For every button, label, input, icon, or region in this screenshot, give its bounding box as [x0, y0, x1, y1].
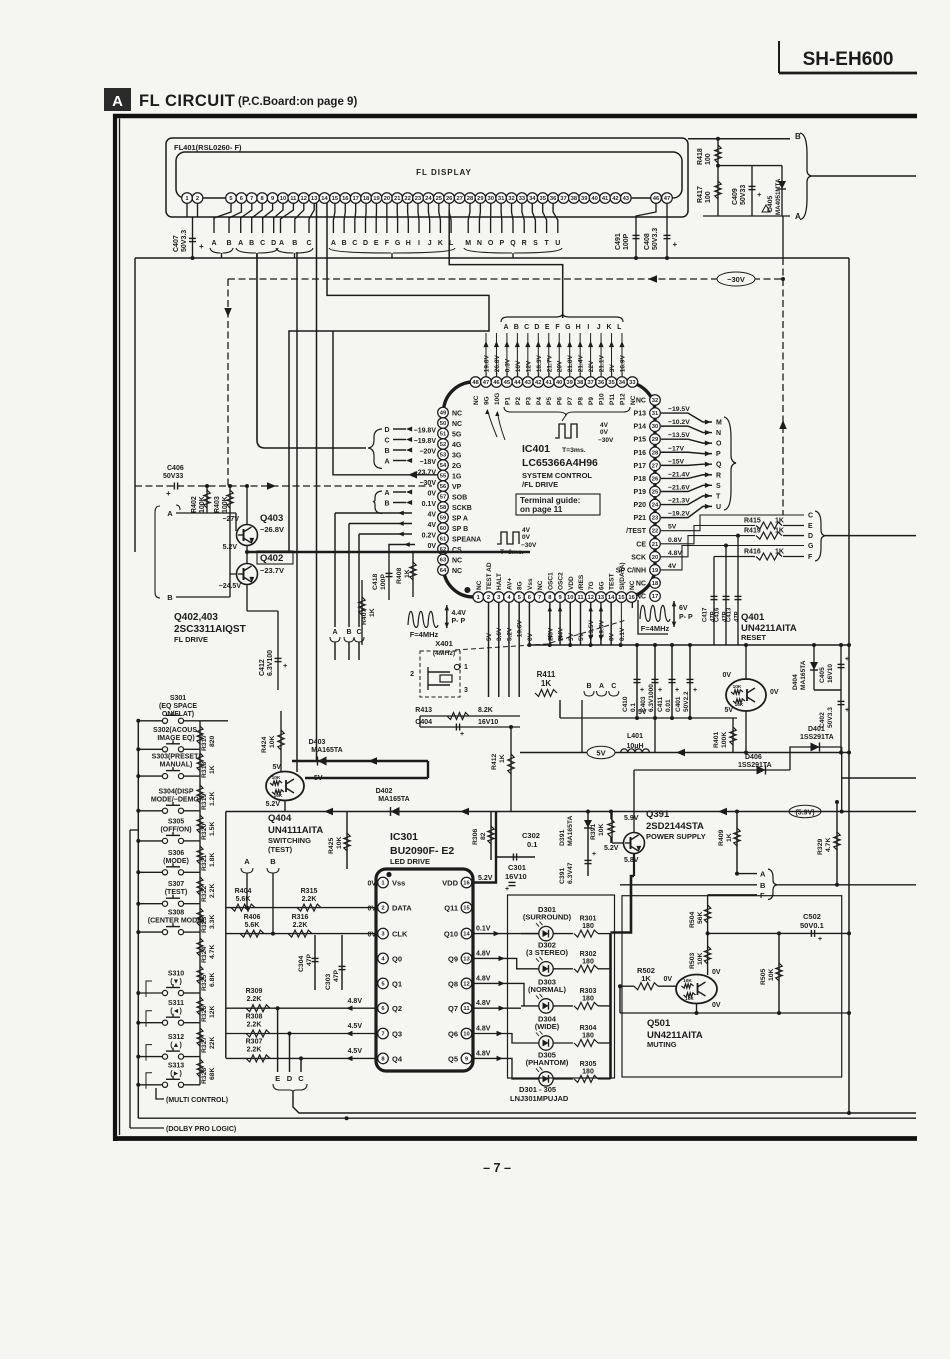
svg-text:47P: 47P — [333, 969, 340, 982]
svg-text:0V: 0V — [712, 1002, 721, 1009]
svg-text:D: D — [384, 427, 389, 434]
svg-text:R412: R412 — [491, 754, 498, 770]
svg-text:C407: C407 — [173, 235, 180, 252]
svg-text:100: 100 — [705, 191, 712, 203]
svg-text:29: 29 — [652, 437, 659, 443]
svg-text:P20: P20 — [634, 502, 647, 509]
svg-text:B: B — [586, 683, 591, 690]
svg-text:R418: R418 — [697, 148, 704, 165]
svg-text:R306: R306 — [472, 829, 479, 845]
svg-text:2.2K: 2.2K — [293, 922, 308, 929]
svg-text:Q6: Q6 — [448, 1030, 458, 1039]
svg-text:/RES: /RES — [578, 574, 585, 590]
svg-text:S310: S310 — [168, 971, 184, 978]
svg-text:7: 7 — [538, 595, 541, 601]
svg-text:R326: R326 — [201, 1006, 208, 1022]
svg-text:B: B — [270, 857, 276, 866]
svg-text:SYSTEM CONTROL: SYSTEM CONTROL — [522, 471, 592, 480]
svg-text:(DOLBY PRO LOGIC): (DOLBY PRO LOGIC) — [166, 1126, 236, 1133]
svg-text:NC: NC — [452, 421, 462, 428]
svg-text:(5.9V): (5.9V) — [795, 810, 814, 817]
svg-text:S: S — [716, 483, 721, 490]
svg-text:0.1V: 0.1V — [422, 501, 437, 508]
svg-text:C502: C502 — [803, 912, 821, 921]
svg-text:R424: R424 — [261, 737, 268, 753]
svg-text:0.2V: 0.2V — [422, 533, 437, 540]
svg-text:61: 61 — [440, 537, 447, 543]
svg-text:10K: 10K — [697, 952, 704, 965]
svg-text:24: 24 — [652, 503, 659, 509]
svg-text:4.4V: 4.4V — [452, 610, 467, 617]
svg-text:P4: P4 — [536, 397, 543, 405]
svg-text:OSC2: OSC2 — [558, 572, 565, 590]
svg-text:S305: S305 — [168, 818, 184, 825]
svg-text:0V: 0V — [522, 534, 531, 541]
svg-text:F: F — [385, 240, 390, 247]
svg-text:2: 2 — [410, 671, 414, 678]
svg-text:16: 16 — [342, 196, 349, 202]
svg-text:P: P — [499, 240, 504, 247]
svg-text:P6: P6 — [557, 397, 564, 405]
svg-text:17: 17 — [652, 594, 658, 600]
svg-text:1K: 1K — [541, 679, 551, 688]
svg-text:100K: 100K — [222, 496, 229, 513]
svg-text:37: 37 — [560, 196, 566, 202]
svg-text:C413: C413 — [727, 607, 733, 622]
svg-text:−23.7V: −23.7V — [260, 566, 284, 575]
svg-text:(MODE): (MODE) — [163, 858, 189, 865]
svg-text:180: 180 — [582, 923, 594, 930]
svg-text:29: 29 — [477, 196, 484, 202]
svg-text:C408: C408 — [644, 233, 651, 250]
svg-text:8.2K: 8.2K — [478, 707, 493, 714]
svg-text:+: + — [675, 687, 679, 694]
svg-text:C: C — [524, 324, 529, 331]
svg-text:C: C — [384, 438, 389, 445]
svg-text:56K: 56K — [697, 911, 704, 924]
svg-text:S306: S306 — [168, 850, 184, 857]
svg-text:NC: NC — [537, 580, 544, 590]
svg-text:17: 17 — [352, 196, 358, 202]
svg-text:180: 180 — [582, 1033, 594, 1040]
svg-text:O: O — [488, 240, 494, 247]
svg-text:22: 22 — [652, 529, 658, 535]
svg-text:F=4MHz: F=4MHz — [410, 630, 439, 639]
svg-text:10K: 10K — [735, 702, 744, 708]
svg-text:RESET: RESET — [741, 633, 766, 642]
svg-text:5.2V: 5.2V — [604, 845, 619, 852]
svg-text:22K: 22K — [209, 1036, 216, 1049]
svg-text:−12V: −12V — [525, 360, 532, 376]
svg-text:R402: R402 — [191, 496, 198, 513]
svg-text:19: 19 — [373, 196, 380, 202]
svg-text:5.9V: 5.9V — [624, 815, 639, 822]
svg-text:2.3V: 2.3V — [547, 627, 554, 641]
svg-text:10: 10 — [280, 196, 286, 202]
svg-text:1K: 1K — [726, 833, 733, 842]
svg-text:−16.9V: −16.9V — [619, 355, 626, 376]
svg-text:2: 2 — [487, 595, 490, 601]
svg-text:2.4V: 2.4V — [558, 627, 565, 641]
svg-text:6V: 6V — [679, 605, 688, 612]
svg-text:−15V: −15V — [668, 458, 685, 465]
svg-text:0V: 0V — [427, 491, 436, 498]
svg-text:C301: C301 — [508, 863, 526, 872]
svg-text:P14: P14 — [634, 424, 647, 431]
svg-text:MA165TA: MA165TA — [311, 747, 342, 754]
svg-text:(TEST): (TEST) — [268, 845, 293, 854]
svg-text:A: A — [279, 240, 284, 247]
svg-text:−19.6V: −19.6V — [517, 620, 524, 641]
svg-text:FL DISPLAY: FL DISPLAY — [416, 168, 472, 177]
svg-text:Q404: Q404 — [268, 813, 292, 824]
svg-text:10K: 10K — [683, 978, 692, 984]
svg-text:10K: 10K — [768, 968, 775, 981]
svg-text:IMAGE EQ): IMAGE EQ) — [157, 735, 194, 742]
svg-text:36: 36 — [550, 196, 557, 202]
svg-text:6.3V100: 6.3V100 — [267, 650, 274, 676]
svg-text:−3V: −3V — [609, 364, 616, 376]
svg-text:S301: S301 — [170, 695, 186, 702]
svg-text:R321: R321 — [201, 855, 208, 871]
svg-text:42: 42 — [612, 196, 618, 202]
svg-text:T=3ms.: T=3ms. — [562, 447, 586, 454]
svg-text:MA4051MTA: MA4051MTA — [775, 178, 782, 215]
svg-text:43: 43 — [525, 380, 532, 386]
svg-text:13: 13 — [311, 196, 318, 202]
svg-text:E: E — [545, 324, 550, 331]
svg-text:SWITCHING: SWITCHING — [268, 836, 311, 845]
svg-text:−21.8V: −21.8V — [567, 355, 574, 376]
svg-text:TEST AD: TEST AD — [486, 562, 493, 590]
svg-text:NC: NC — [452, 568, 462, 575]
svg-text:13: 13 — [463, 956, 470, 962]
svg-text:+: + — [460, 731, 464, 738]
svg-text:P18: P18 — [634, 476, 647, 483]
svg-text:−30V: −30V — [598, 437, 614, 444]
svg-text:0.1V: 0.1V — [476, 926, 491, 933]
svg-text:5.2V: 5.2V — [506, 627, 513, 641]
svg-text:(SURROUND): (SURROUND) — [523, 913, 572, 922]
svg-text:4.8V: 4.8V — [476, 1000, 491, 1007]
svg-text:2G: 2G — [452, 463, 462, 470]
svg-text:30: 30 — [488, 196, 494, 202]
svg-text:20: 20 — [384, 196, 390, 202]
svg-text:R409: R409 — [718, 830, 725, 846]
svg-text:BU2090F- E2: BU2090F- E2 — [390, 845, 454, 857]
svg-text:+: + — [505, 886, 509, 893]
svg-text:−20V: −20V — [419, 449, 436, 456]
svg-text:41: 41 — [545, 380, 552, 386]
svg-text:R403: R403 — [214, 496, 221, 513]
svg-text:NC: NC — [473, 395, 480, 405]
svg-text:−22V: −22V — [588, 360, 595, 376]
svg-text:SP A: SP A — [452, 516, 468, 523]
svg-text:−30V: −30V — [419, 480, 436, 487]
svg-text:C417: C417 — [703, 607, 709, 622]
svg-text:14: 14 — [608, 595, 615, 601]
svg-text:36: 36 — [598, 380, 605, 386]
svg-text:0V: 0V — [427, 543, 436, 550]
svg-text:56: 56 — [440, 484, 447, 490]
svg-text:U: U — [555, 240, 560, 247]
svg-text:10K: 10K — [733, 684, 742, 690]
svg-text:B: B — [226, 240, 231, 247]
svg-text:50V3.3: 50V3.3 — [827, 707, 834, 728]
svg-text:R329: R329 — [817, 839, 824, 855]
svg-text:38: 38 — [571, 196, 578, 202]
svg-text:I: I — [418, 240, 420, 247]
svg-text:M: M — [465, 240, 471, 247]
svg-text:1SS291TA: 1SS291TA — [800, 734, 834, 741]
svg-text:4.8V: 4.8V — [668, 550, 682, 557]
svg-text:U: U — [716, 504, 721, 511]
svg-text:NC: NC — [636, 398, 646, 405]
svg-text:R315: R315 — [301, 888, 318, 895]
svg-text:(OFF/ON): (OFF/ON) — [160, 826, 191, 833]
svg-text:47P: 47P — [735, 611, 741, 622]
svg-text:22: 22 — [404, 196, 410, 202]
svg-text:4.8V: 4.8V — [476, 950, 491, 957]
svg-text:45: 45 — [504, 380, 511, 386]
svg-text:R323: R323 — [201, 917, 208, 933]
svg-text:C410: C410 — [622, 696, 629, 712]
svg-text:T: T — [544, 240, 549, 247]
svg-text:D391: D391 — [559, 830, 566, 846]
svg-text:0V: 0V — [367, 881, 376, 888]
svg-text:Q403: Q403 — [260, 513, 283, 524]
svg-text:28: 28 — [652, 450, 659, 456]
svg-text:16: 16 — [628, 595, 635, 601]
svg-text:(PHANTOM): (PHANTOM) — [526, 1058, 569, 1067]
svg-text:R: R — [716, 472, 721, 479]
svg-text:E: E — [808, 523, 813, 530]
svg-text:1K: 1K — [499, 754, 506, 763]
svg-text:P16: P16 — [634, 450, 647, 457]
svg-text:34: 34 — [619, 380, 626, 386]
svg-text:27: 27 — [456, 196, 462, 202]
svg-text:P: P — [716, 451, 721, 458]
svg-text:D: D — [271, 240, 276, 247]
svg-text:20: 20 — [652, 555, 658, 561]
svg-text:9G: 9G — [483, 396, 490, 405]
svg-text:82: 82 — [480, 832, 487, 840]
svg-text:+: + — [818, 936, 822, 943]
svg-text:B: B — [514, 324, 519, 331]
svg-text:−10.2V: −10.2V — [668, 419, 690, 426]
svg-text:35: 35 — [539, 196, 546, 202]
svg-text:(MULTI CONTROL): (MULTI CONTROL) — [166, 1097, 228, 1104]
svg-text:C: C — [298, 1074, 304, 1083]
svg-text:−19.8V: −19.8V — [484, 355, 491, 376]
svg-text:43: 43 — [623, 196, 630, 202]
svg-text:R415: R415 — [744, 518, 761, 525]
svg-text:CLK: CLK — [392, 930, 408, 939]
svg-text:R308: R308 — [246, 1014, 263, 1021]
svg-text:4G: 4G — [452, 442, 462, 449]
svg-text:MUTING: MUTING — [647, 1040, 677, 1049]
svg-text:L401: L401 — [627, 733, 643, 740]
svg-text:R504: R504 — [689, 912, 696, 928]
svg-text:G: G — [808, 543, 814, 550]
svg-text:50V2.2: 50V2.2 — [683, 691, 690, 712]
svg-text:−19.5V: −19.5V — [668, 406, 690, 413]
svg-text:H: H — [406, 240, 411, 247]
svg-text:5V: 5V — [486, 632, 493, 641]
svg-text:LC65366A4H96: LC65366A4H96 — [522, 457, 598, 469]
svg-text:R302: R302 — [580, 951, 597, 958]
svg-text:47: 47 — [664, 196, 670, 202]
svg-text:SCK: SCK — [631, 554, 646, 561]
svg-text:1K: 1K — [369, 608, 376, 617]
svg-text:24: 24 — [425, 196, 432, 202]
svg-text:Q401: Q401 — [741, 612, 765, 623]
svg-text:11: 11 — [290, 196, 297, 202]
svg-text:VP: VP — [452, 484, 462, 491]
svg-text:P5: P5 — [546, 397, 553, 405]
svg-text:A: A — [167, 509, 173, 518]
svg-text:Q9: Q9 — [448, 954, 458, 963]
svg-text:10K: 10K — [274, 793, 283, 799]
svg-text:6.3V1000: 6.3V1000 — [648, 684, 655, 712]
svg-text:2SD2144STA: 2SD2144STA — [646, 821, 704, 832]
svg-text:4V: 4V — [668, 563, 677, 570]
svg-text:P21: P21 — [634, 515, 647, 522]
svg-text:FL CIRCUIT: FL CIRCUIT — [139, 92, 235, 110]
svg-text:16: 16 — [463, 881, 470, 887]
svg-text:R425: R425 — [328, 838, 335, 854]
svg-text:50V3.3: 50V3.3 — [652, 228, 659, 250]
svg-text:+: + — [166, 489, 171, 498]
svg-text:(P.C.Board:on page 9): (P.C.Board:on page 9) — [238, 96, 357, 108]
svg-text:P8: P8 — [578, 397, 585, 405]
svg-text:C: C — [611, 683, 616, 690]
svg-text:R505: R505 — [760, 969, 767, 985]
svg-text:4.8V: 4.8V — [348, 998, 363, 1005]
svg-text:1: 1 — [464, 664, 468, 671]
svg-text:10μH: 10μH — [626, 743, 643, 750]
svg-text:R324: R324 — [201, 947, 208, 963]
svg-text:NC: NC — [452, 411, 462, 418]
svg-text:N: N — [477, 240, 482, 247]
svg-text:4V: 4V — [427, 512, 436, 519]
svg-text:68K: 68K — [209, 1067, 216, 1080]
svg-text:Q391: Q391 — [646, 809, 670, 820]
svg-text:26: 26 — [446, 196, 453, 202]
svg-text:2SC3311AIQST: 2SC3311AIQST — [174, 624, 246, 635]
svg-text:P10: P10 — [599, 393, 606, 405]
svg-text:32: 32 — [652, 398, 658, 404]
svg-text:4V: 4V — [427, 522, 436, 529]
svg-text:31: 31 — [652, 411, 659, 417]
svg-text:4.5V: 4.5V — [348, 1023, 363, 1030]
svg-text:18: 18 — [363, 196, 370, 202]
svg-text:1K: 1K — [209, 765, 216, 774]
svg-text:8G: 8G — [517, 581, 524, 590]
svg-text:D: D — [363, 240, 368, 247]
svg-text:−18V: −18V — [419, 459, 436, 466]
svg-text:0V: 0V — [722, 672, 731, 679]
svg-text:47: 47 — [483, 380, 489, 386]
svg-text:Q: Q — [510, 240, 516, 247]
svg-text:R503: R503 — [689, 953, 696, 969]
svg-text:5V: 5V — [596, 749, 605, 758]
svg-text:A: A — [331, 240, 336, 247]
svg-text:CE: CE — [636, 541, 646, 548]
svg-text:S: S — [533, 240, 538, 247]
svg-text:R325: R325 — [201, 975, 208, 991]
svg-text:48: 48 — [472, 380, 479, 386]
svg-text:T: T — [716, 493, 721, 500]
svg-text:0V: 0V — [367, 932, 376, 939]
svg-text:P9: P9 — [588, 397, 595, 405]
svg-text:12K: 12K — [209, 1005, 216, 1018]
svg-text:SP C/INH: SP C/INH — [616, 567, 646, 574]
svg-text:D404: D404 — [792, 674, 799, 690]
svg-text:+: + — [673, 240, 678, 249]
svg-text:27: 27 — [652, 463, 658, 469]
svg-text:−21.1V: −21.1V — [599, 355, 606, 376]
svg-text:47P: 47P — [306, 953, 313, 966]
svg-text:42: 42 — [535, 380, 541, 386]
svg-text:5.2V: 5.2V — [223, 544, 238, 551]
svg-text:23: 23 — [652, 516, 659, 522]
svg-text:S303(PRESET/: S303(PRESET/ — [152, 754, 201, 761]
svg-text:3.3K: 3.3K — [209, 915, 216, 929]
svg-text:63: 63 — [440, 558, 447, 564]
svg-text:16V10: 16V10 — [505, 872, 527, 881]
svg-text:16V10: 16V10 — [827, 664, 834, 683]
svg-text:S302(ACOUS.: S302(ACOUS. — [153, 727, 199, 734]
svg-text:R320: R320 — [201, 824, 208, 840]
svg-text:A: A — [503, 324, 508, 331]
svg-text:C: C — [306, 240, 311, 247]
svg-text:(▼): (▼) — [170, 979, 182, 986]
svg-text:C405: C405 — [819, 667, 826, 683]
svg-text:0.1V: 0.1V — [619, 627, 626, 641]
svg-text:39: 39 — [581, 196, 588, 202]
svg-text:11: 11 — [463, 1006, 470, 1012]
svg-text:C404: C404 — [415, 719, 432, 726]
svg-text:0V: 0V — [600, 429, 609, 436]
svg-text:5V: 5V — [668, 524, 677, 531]
svg-text:10K: 10K — [598, 823, 605, 836]
svg-text:26: 26 — [652, 476, 659, 482]
svg-text:G: G — [395, 240, 401, 247]
svg-text:(NORMAL): (NORMAL) — [528, 985, 566, 994]
svg-text:S312: S312 — [168, 1034, 184, 1041]
svg-text:46: 46 — [653, 196, 660, 202]
svg-text:B: B — [346, 629, 351, 636]
svg-text:35: 35 — [608, 380, 615, 386]
svg-text:−19.2V: −19.2V — [668, 511, 690, 518]
svg-text:40: 40 — [556, 380, 562, 386]
svg-text:5V: 5V — [568, 632, 575, 641]
svg-text:4.5V: 4.5V — [348, 1048, 363, 1055]
svg-text:OSC1: OSC1 — [547, 572, 554, 590]
svg-text:NC: NC — [636, 580, 646, 587]
svg-text:−19.8V: −19.8V — [414, 438, 437, 445]
svg-text:K: K — [438, 240, 443, 247]
svg-text:P17: P17 — [634, 463, 647, 470]
svg-text:I: I — [587, 324, 589, 331]
svg-text:3G: 3G — [452, 453, 462, 460]
svg-text:180: 180 — [582, 995, 594, 1002]
svg-text:G: G — [565, 324, 571, 331]
svg-text:51: 51 — [440, 432, 447, 438]
svg-text:/TEST: /TEST — [626, 528, 647, 535]
svg-text:33: 33 — [519, 196, 526, 202]
